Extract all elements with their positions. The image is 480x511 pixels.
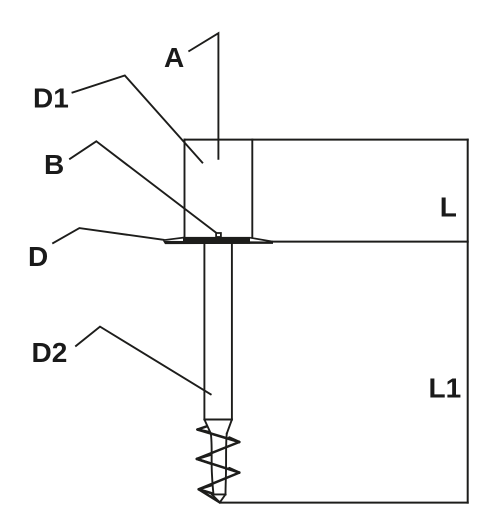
wire: L/L1 divider at flange level [273, 241, 468, 243]
shaft (tube) [204, 244, 232, 420]
node D leader [53, 228, 163, 243]
node A leader [189, 33, 218, 159]
helix final to tip [199, 489, 220, 502]
helix turn 2 left crest [197, 455, 212, 464]
nub B (set screw) [216, 233, 221, 237]
svg-text:B: B [44, 149, 64, 180]
svg-text:A: A [164, 42, 184, 73]
helix diagonal 3 [197, 459, 240, 473]
helix diagonal 2 [197, 442, 240, 459]
flange plate solid center [183, 237, 250, 244]
wire: right vertical of dimension bracket [467, 140, 469, 503]
svg-text:D2: D2 [32, 337, 68, 368]
screw tip [212, 494, 226, 502]
node B leader [70, 141, 216, 232]
helix turn 1 left crest [197, 426, 208, 432]
helix turn 1 right crest [229, 438, 239, 443]
helix thread (auger) [197, 426, 240, 502]
flange plate right bevel top edge [250, 238, 273, 242]
wire: top edge of L bracket [185, 139, 468, 141]
wire: bottom edge of L1 bracket [221, 502, 468, 504]
cylinder body (sleeve) [185, 140, 253, 238]
node D2 leader [76, 327, 211, 395]
node D1 leader [73, 76, 203, 163]
shaft taper shoulder [204, 420, 232, 434]
svg-text:D1: D1 [33, 83, 69, 114]
flange plate left bevel top edge [163, 238, 184, 241]
flange plate D : bottom bar [163, 241, 273, 244]
screw shank walls [211, 434, 227, 495]
helix diagonal 1 [197, 430, 239, 443]
svg-text:L1: L1 [429, 373, 462, 404]
svg-text:L: L [440, 191, 457, 222]
helix turn 2 right crest [229, 468, 239, 472]
helix diagonal 4 [199, 473, 240, 490]
helix turn 3 left crest [199, 485, 213, 493]
svg-text:D: D [28, 241, 48, 272]
